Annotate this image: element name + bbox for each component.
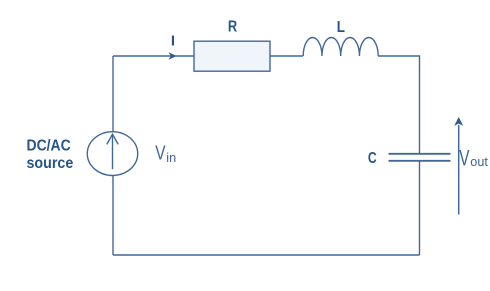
wire: inductor to top-right corner down to capacitor top plate <box>378 56 420 153</box>
Vout arrow shaft <box>458 125 460 215</box>
svg-text:V: V <box>155 142 166 165</box>
resistor R body <box>194 41 270 71</box>
source V1 ellipse (DC/AC source) <box>87 132 137 176</box>
svg-text:out: out <box>470 155 488 169</box>
source internal arrow shaft <box>112 134 114 169</box>
inductor L coil (4 humps) <box>303 38 378 57</box>
wire: left vertical below source <box>112 176 114 256</box>
Vout arrowhead (filled) <box>454 117 463 126</box>
capacitor C top plate <box>389 153 451 155</box>
wire: capacitor bottom plate down to bottom-right corner <box>419 162 421 256</box>
current direction arrowhead on top wire <box>169 52 177 59</box>
source internal arrowhead (open) <box>107 134 118 144</box>
svg-text:in: in <box>166 151 176 165</box>
svg-text:R: R <box>228 19 237 36</box>
svg-text:I: I <box>171 33 175 50</box>
svg-text:source: source <box>27 155 74 172</box>
svg-text:L: L <box>337 19 345 36</box>
wire: top segment from source node to resistor <box>113 55 194 57</box>
wire: resistor to inductor <box>270 55 303 57</box>
wire: left vertical above source <box>112 56 114 132</box>
capacitor C bottom plate <box>389 160 451 162</box>
wire: bottom return segment <box>113 254 420 256</box>
svg-text:C: C <box>368 150 377 167</box>
svg-text:DC/AC: DC/AC <box>27 138 72 155</box>
svg-text:V: V <box>459 145 469 170</box>
